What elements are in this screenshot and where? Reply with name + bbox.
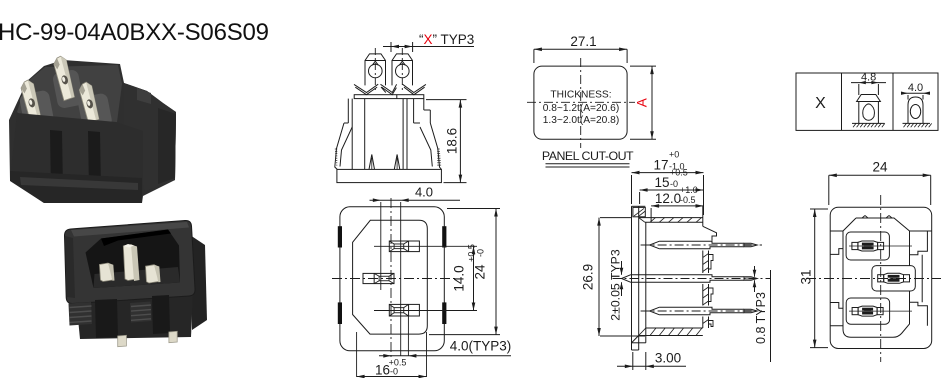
view: panel cut-out drawing (527, 58, 635, 148)
view: side section drawing (632, 206, 717, 350)
svg-text:12.0: 12.0 (655, 191, 681, 206)
terminal top (rear view) (389, 241, 419, 252)
pin middle (section) (613, 275, 771, 282)
svg-text:-0: -0 (476, 249, 486, 257)
svg-text:THICKNESS:: THICKNESS: (550, 90, 611, 101)
body top wall hatched (639, 217, 703, 219)
svg-text:14.0: 14.0 (452, 265, 467, 291)
svg-text:1.3~2.0t(A=20.8): 1.3~2.0t(A=20.8) (543, 115, 619, 126)
terminal lug 1 (20, 79, 43, 123)
detail terminal 4.0 (901, 82, 932, 127)
side tab right lower (910, 255, 928, 326)
vertical centerline (rear) (390, 198, 392, 360)
dimension 2±0.05 TYP3 (609, 249, 624, 321)
side tab right upper (910, 231, 932, 255)
bottom flange plate (337, 169, 442, 182)
view: side elevation drawing (335, 48, 442, 183)
flange bottom step (632, 336, 639, 343)
centerline pin right (401, 48, 403, 90)
body right wall top (702, 206, 704, 226)
svg-text:17: 17 (653, 158, 668, 173)
svg-text:2±0.05 TYP3: 2±0.05 TYP3 (609, 249, 623, 321)
pin bottom (section) (641, 307, 762, 314)
vertical centerline (front view) (880, 195, 882, 362)
slot bottom (front view) (846, 298, 889, 324)
left snap latch (335, 123, 344, 169)
mounting flange (631, 206, 633, 350)
svg-text:26.9: 26.9 (581, 264, 596, 290)
svg-text:0.8~1.2t(A=20.6): 0.8~1.2t(A=20.6) (543, 103, 619, 114)
dimension 12.0 +1.0/-0.5 (651, 185, 703, 208)
slot middle (front view) (872, 266, 915, 291)
terminal lug 2 (52, 55, 75, 101)
svg-text:4.0(TYP3): 4.0(TYP3) (450, 339, 512, 354)
svg-text:4.0: 4.0 (415, 185, 433, 200)
svg-text:31: 31 (799, 269, 814, 284)
terminal middle (rear view) (363, 273, 394, 283)
dimension 17 +0/-1.0 (632, 150, 704, 216)
dimension 4.0(TYP3) (379, 339, 511, 358)
dimension 31 (front view) (799, 209, 829, 348)
side tab left lower (830, 303, 843, 326)
body bottom wall hatched (646, 327, 703, 329)
right snap latch (430, 123, 441, 169)
view: rear view drawing (332, 198, 455, 360)
dimension 4.0 top (370, 185, 461, 203)
svg-text:+1.0: +1.0 (680, 185, 698, 195)
side tab left upper (830, 231, 843, 254)
dimension X TYP3 with leader (383, 32, 474, 52)
dimension 3.00 (617, 351, 686, 371)
svg-text:-0.5: -0.5 (680, 195, 696, 205)
latch wings (354, 84, 378, 92)
pin top (section) (641, 241, 762, 248)
line pin right (146, 265, 159, 283)
body left wall (645, 222, 647, 328)
svg-text:15: 15 (654, 175, 669, 190)
svg-text:0.8 TYP3: 0.8 TYP3 (754, 292, 768, 344)
terminal lug 3 (78, 81, 100, 123)
line pin left (99, 263, 112, 282)
svg-text:HC-99-04A0BXX-S06S09: HC-99-04A0BXX-S06S09 (0, 19, 269, 46)
horizontal centerline (rear) (332, 278, 455, 280)
svg-text:+0: +0 (669, 150, 679, 160)
svg-text:-0: -0 (670, 179, 678, 189)
earth pin (123, 245, 136, 281)
svg-text:X: X (815, 95, 826, 112)
table: X terminal detail (796, 73, 938, 130)
dimension 24 +0.5/-0 (429, 209, 500, 335)
photo: front 3D product view (64, 220, 207, 346)
dimension 24 (front view) (829, 160, 931, 206)
top plate (354, 95, 424, 99)
svg-text:4.0: 4.0 (908, 82, 923, 94)
detail terminal 4.8 (851, 72, 886, 128)
outer housing outline (front) (830, 207, 932, 348)
horizontal centerline (cutout) (527, 101, 635, 103)
side tabs black (338, 226, 342, 247)
svg-text:18.6: 18.6 (445, 128, 460, 154)
photo: rear 3D product view (9, 55, 176, 203)
view: front view drawing (830, 207, 932, 348)
horizontal centerline (front view) (806, 278, 941, 280)
slot top (front view) (846, 232, 889, 260)
dimension A (red) (630, 66, 656, 139)
dimension 18.6 (426, 100, 467, 183)
svg-text:24: 24 (473, 264, 488, 280)
dimension 26.9 (581, 218, 646, 336)
terminal pin right (392, 54, 413, 86)
vertical centerline (cutout) (580, 58, 582, 148)
face bumps (862, 216, 865, 219)
svg-text:PANEL CUT-OUT: PANEL CUT-OUT (542, 149, 634, 163)
dimension 0.8 TYP3 (753, 266, 771, 362)
dimension 27.1 (534, 34, 627, 63)
terminal bottom (rear view) (389, 304, 419, 316)
svg-text:“X” TYP3: “X” TYP3 (419, 32, 474, 47)
terminal pin left (365, 54, 386, 86)
inner socket outline (rear) (353, 220, 428, 334)
extension lines vertical (rear) (380, 202, 382, 290)
svg-text:4.8: 4.8 (861, 72, 876, 84)
centerline pin left (374, 48, 376, 90)
svg-text:3.00: 3.00 (655, 351, 681, 366)
body wall segments with hatch (632, 251, 714, 351)
outer housing outline (rear) (340, 207, 444, 351)
svg-text:A: A (635, 98, 650, 107)
body outline (347, 99, 349, 123)
dimension 14.0 (452, 246, 476, 310)
inner face outline (843, 218, 910, 337)
svg-text:24: 24 (872, 160, 888, 175)
svg-text:27.1: 27.1 (570, 34, 596, 49)
svg-text:+0.5: +0.5 (670, 168, 688, 178)
dimension 16 +0.5/-0 (357, 358, 427, 379)
label PANEL CUT-OUT (542, 149, 634, 167)
spike pins inside body (369, 155, 375, 170)
dimension 15 +0.5/-0 (640, 168, 704, 205)
svg-text:-0: -0 (390, 367, 398, 377)
